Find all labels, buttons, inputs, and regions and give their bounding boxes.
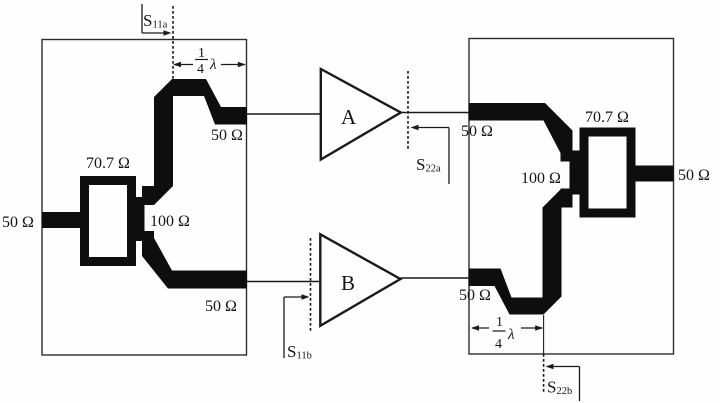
wilkinson ring right: 70.7 ohm quarter-wave loop <box>580 128 636 218</box>
wire left box to amplifier A <box>247 113 322 115</box>
svg-text:B: B <box>341 271 355 295</box>
amplifier B <box>320 234 400 325</box>
right upper branch trace <box>469 103 573 161</box>
svg-text:1: 1 <box>198 46 205 61</box>
left upper port stub <box>142 186 154 205</box>
svg-text:50 Ω: 50 Ω <box>211 127 243 144</box>
svg-text:50 Ω: 50 Ω <box>461 123 493 140</box>
input line 50 ohm (left microstrip bar) <box>42 212 89 228</box>
wire left box to amplifier B <box>247 281 321 283</box>
wire amplifier B to right box <box>400 277 469 279</box>
svg-text:λ: λ <box>507 327 515 343</box>
svg-text:50 Ω: 50 Ω <box>678 167 710 184</box>
S22a reference plane (dashed) <box>407 71 409 151</box>
wire amplifier A to right box <box>401 112 469 114</box>
svg-text:70.7 Ω: 70.7 Ω <box>585 109 629 126</box>
svg-text:4: 4 <box>197 62 204 77</box>
svg-text:50 Ω: 50 Ω <box>2 214 34 231</box>
amplifier A <box>321 69 401 160</box>
svg-text:100 Ω: 100 Ω <box>150 213 190 230</box>
left upper branch trace <box>154 79 247 205</box>
left divider box outline <box>42 40 247 356</box>
svg-text:70.7 Ω: 70.7 Ω <box>86 155 130 172</box>
svg-text:A: A <box>341 105 357 129</box>
svg-text:50 Ω: 50 Ω <box>459 287 491 304</box>
output line 50 ohm (right microstrip bar) <box>627 166 674 182</box>
S11b reference plane (dashed) <box>310 238 312 332</box>
svg-text:1: 1 <box>496 315 503 330</box>
left lower branch trace <box>142 231 247 289</box>
right lower port stub <box>561 189 573 208</box>
S22a bracket <box>414 127 449 129</box>
right upper port stub <box>561 143 573 162</box>
svg-text:50 Ω: 50 Ω <box>205 298 237 315</box>
left lower port stub <box>142 231 154 250</box>
S11b bracket <box>284 296 306 298</box>
S22b bracket <box>549 366 580 368</box>
quarter-wave dimension left <box>174 64 245 66</box>
S11a bracket <box>141 4 143 33</box>
quarter-wave dimension right <box>472 327 542 329</box>
S11a reference plane (dashed) <box>172 6 174 80</box>
resistor 100 ohm right (vertical chip) <box>570 151 581 195</box>
svg-text:100 Ω: 100 Ω <box>521 170 561 187</box>
svg-text:4: 4 <box>495 337 502 352</box>
S22b reference plane (solid above box edge, dashed below) <box>543 315 545 354</box>
wilkinson ring left: 70.7 ohm quarter-wave loop <box>80 176 136 266</box>
right lower branch trace <box>469 189 562 315</box>
right combiner box outline <box>469 39 674 355</box>
resistor 100 ohm left (vertical chip) <box>134 197 145 241</box>
svg-text:λ: λ <box>209 57 217 73</box>
